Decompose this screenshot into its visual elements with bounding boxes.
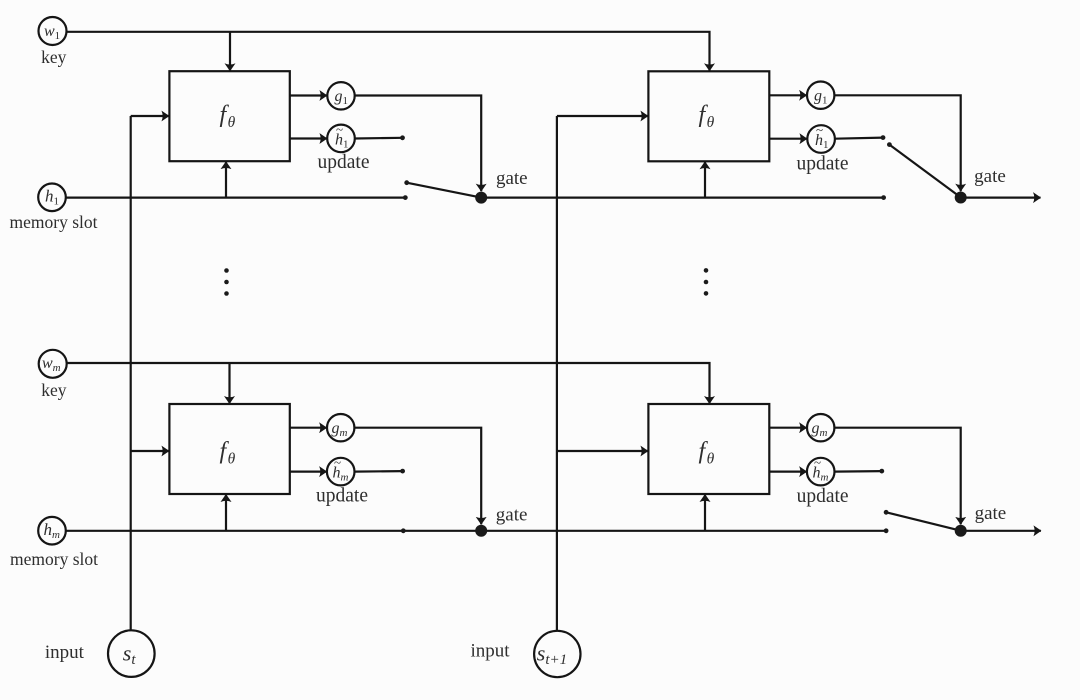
hhatm' stub end dot <box>879 469 884 474</box>
wire key row m horizontal <box>67 363 710 404</box>
svg-text:h1: h1 <box>45 186 59 207</box>
update circle hhat1 <box>327 125 355 153</box>
svg-text:update: update <box>318 152 370 173</box>
wire box t+1,m to gm arrow <box>769 427 806 429</box>
wire input s_t to box t,m <box>131 450 169 452</box>
box f_theta t,1 <box>169 71 289 161</box>
svg-text:key: key <box>41 380 67 400</box>
svg-text:st+1: st+1 <box>537 640 567 668</box>
gate node dot t,1 <box>475 192 487 204</box>
svg-text:gate: gate <box>496 505 528 526</box>
gate node dot t+1,m <box>955 525 967 537</box>
wire input s_t+1 to box t+1,1 <box>557 115 648 117</box>
svg-text:h1: h1 <box>335 132 349 151</box>
wire input s_t+1 to box t+1,m <box>557 450 648 452</box>
wire memory m between gates <box>481 530 886 532</box>
gate node dot t+1,1 <box>955 192 967 204</box>
switch lever t+1,1 <box>889 145 960 198</box>
wire box t+1,1 to g1 arrow <box>769 94 806 96</box>
gate node dot t,m <box>475 525 487 537</box>
wire box t,m to hhatm arrow <box>290 471 327 473</box>
hhat1' stub end dot <box>881 135 886 140</box>
wire gm gate line down <box>354 428 481 525</box>
memory circle h1 <box>38 184 66 212</box>
switch lever t+1,m <box>886 512 961 530</box>
svg-text:update: update <box>316 486 368 507</box>
svg-text:input: input <box>470 640 510 661</box>
wire memory 1 arrow up into box t+1,1 <box>704 162 706 198</box>
wire memory m arrow up into box t,m <box>225 495 227 531</box>
lever tip dot t+1,m <box>884 510 889 515</box>
junction dot end of memory 1 at switch t+1,1 <box>881 195 886 200</box>
wire hhat1 stub <box>355 137 403 140</box>
svg-text:g1: g1 <box>814 88 828 107</box>
svg-text:st: st <box>123 640 137 668</box>
svg-text:fθ: fθ <box>699 102 715 131</box>
svg-text:hm: hm <box>44 520 61 541</box>
svg-text:fθ: fθ <box>699 439 715 468</box>
wire memory slot m from hm <box>66 530 481 532</box>
gate circle gm' <box>807 414 834 441</box>
svg-text:gm: gm <box>812 420 828 439</box>
update circle hhatm' <box>807 458 835 486</box>
wire box t,1 to hhat1 arrow <box>290 137 327 139</box>
box f_theta t,m <box>169 404 289 494</box>
wire memory 1 between gates <box>481 197 883 199</box>
wire key1 branch arrow into box t,1 <box>229 32 231 71</box>
hhatm stub end dot <box>400 469 405 474</box>
junction dot end of memory m at switch t+1,m <box>884 528 889 533</box>
wire hhatm stub <box>354 470 402 473</box>
gate circle gm <box>327 414 354 441</box>
svg-text:key: key <box>41 47 67 67</box>
wire box t,1 to g1 arrow <box>290 94 327 96</box>
svg-text:gate: gate <box>975 503 1007 524</box>
wire input s_t vertical <box>130 116 132 630</box>
input circle s_t+1 <box>534 631 580 677</box>
svg-text:gm: gm <box>332 420 348 439</box>
hhat1 stub end dot <box>400 135 405 140</box>
svg-text:memory slot: memory slot <box>10 549 98 569</box>
wire memory 1 arrow up into box t,1 <box>225 162 227 198</box>
svg-text:w1: w1 <box>44 23 60 42</box>
vertical ellipsis right <box>704 268 709 273</box>
wire g1 gate line down <box>355 96 482 192</box>
box f_theta t+1,m <box>648 404 769 494</box>
wire gm' gate line down <box>834 428 960 525</box>
wire memory m arrow up into box t+1,m <box>704 495 706 531</box>
wire box t+1,1 to hhat1 arrow <box>769 138 807 140</box>
wire key row 1 horizontal <box>67 32 710 71</box>
svg-text:h1: h1 <box>815 132 829 151</box>
svg-text:fθ: fθ <box>220 102 236 131</box>
wire memory slot 1 from h1 <box>66 197 405 199</box>
wire g1' gate line down <box>834 95 960 191</box>
gate circle g1' <box>807 82 834 109</box>
wire box t+1,m to hhatm arrow <box>769 471 806 473</box>
update circle hhat1' <box>807 125 835 153</box>
gate circle g1 <box>327 82 354 109</box>
lever tip dot t,1 <box>404 180 409 185</box>
wire keym branch arrow into box t,m <box>228 363 230 404</box>
box f_theta t+1,1 <box>648 71 769 161</box>
wire input s_t to box t,1 <box>131 115 169 117</box>
wire hhat1' stub <box>835 138 883 139</box>
key circle w1 <box>39 17 67 45</box>
vertical ellipsis left <box>224 268 229 273</box>
svg-text:fθ: fθ <box>220 439 236 468</box>
wire memory 1 output arrow <box>961 197 1041 199</box>
svg-text:update: update <box>797 154 849 175</box>
junction dot memory m at switch t,m <box>401 528 406 533</box>
junction dot end of memory 1 at switch t,1 <box>403 195 408 200</box>
wire hhatm' stub <box>834 470 881 473</box>
svg-text:update: update <box>797 486 849 507</box>
update circle hhatm <box>327 458 355 486</box>
wire input s_t+1 vertical <box>556 116 558 631</box>
input circle s_t <box>108 630 155 677</box>
wire box t,m to gm arrow <box>290 427 327 429</box>
svg-text:memory slot: memory slot <box>10 212 98 232</box>
key circle wm <box>39 350 67 378</box>
wire memory m output arrow <box>961 530 1041 532</box>
svg-text:gate: gate <box>974 166 1006 187</box>
switch lever t,1 <box>407 183 482 198</box>
memory circle hm <box>38 517 66 545</box>
svg-text:input: input <box>45 642 85 663</box>
svg-text:g1: g1 <box>335 88 349 107</box>
lever tip dot t+1,1 <box>887 142 892 147</box>
svg-text:wm: wm <box>42 355 61 374</box>
svg-text:gate: gate <box>496 168 528 189</box>
